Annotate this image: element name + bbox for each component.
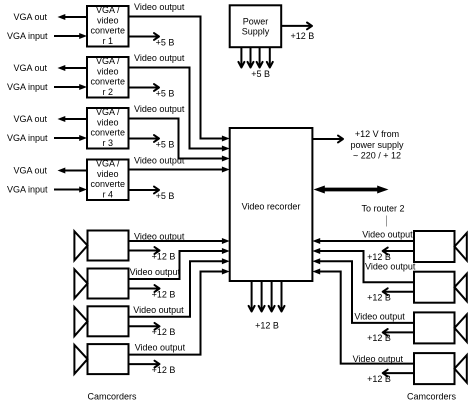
- VGA input arrow, converter 4: [7, 185, 87, 195]
- Video output wire, left camcorder 2 to recorder: [129, 248, 230, 279]
- svg-text:converte: converte: [90, 77, 125, 87]
- VGA input arrow, converter 3: [7, 133, 87, 143]
- right camcorder 4 (body + lens triangle): [414, 353, 467, 384]
- svg-text:+5 B: +5 B: [156, 89, 175, 99]
- bidirectional link arrow to router 2: [314, 186, 405, 214]
- svg-text:+5 B: +5 B: [156, 38, 175, 48]
- svg-text:VGA /: VGA /: [96, 5, 120, 15]
- +12 B power arrow, right camcorder 2: [367, 288, 414, 302]
- left camcorder 1 (body + lens triangle): [74, 231, 128, 261]
- +12 B power arrow, right camcorder 3: [367, 329, 414, 343]
- svg-text:+12 B: +12 B: [367, 252, 391, 262]
- VGA input arrow, converter 2: [7, 82, 87, 92]
- svg-text:VGA /: VGA /: [96, 159, 120, 169]
- svg-text:r 3: r 3: [102, 138, 113, 148]
- svg-text:power supply: power supply: [350, 140, 404, 150]
- svg-text:VGA /: VGA /: [96, 107, 120, 117]
- VGA input arrow, converter 1: [7, 31, 87, 41]
- Camcorders label (right): [407, 392, 457, 402]
- Video output wire, converter 2 to recorder: [129, 53, 230, 152]
- +12 B power arrow, right camcorder 1: [367, 248, 414, 262]
- svg-text:Supply: Supply: [242, 27, 270, 37]
- Video output wire, converter 3 to recorder: [129, 104, 230, 162]
- Video output wire, converter 1 to recorder: [129, 2, 230, 142]
- svg-text:+12 B: +12 B: [367, 374, 391, 384]
- svg-text:Video output: Video output: [133, 305, 184, 315]
- right camcorder 1 (body + lens triangle): [414, 231, 467, 262]
- svg-text:VGA out: VGA out: [13, 166, 47, 176]
- svg-text:Video output: Video output: [130, 267, 181, 277]
- svg-text:video: video: [97, 169, 119, 179]
- svg-text:Video output: Video output: [134, 53, 185, 63]
- leader tick under To router 2: [386, 216, 388, 227]
- +12 B power arrow, left camcorder 3: [129, 323, 176, 337]
- svg-text:VGA input: VGA input: [7, 185, 48, 195]
- svg-text:+5 B: +5 B: [156, 191, 175, 201]
- svg-text:Power: Power: [243, 16, 269, 26]
- left camcorder 2 (body + lens triangle): [74, 269, 128, 299]
- +5 B outputs of power supply (4 down arrows): [238, 47, 272, 79]
- Video output wire, right camcorder 3 to recorder: [312, 258, 414, 323]
- right camcorder 3 (body + lens triangle): [414, 312, 467, 343]
- svg-text:Video output: Video output: [354, 312, 405, 322]
- VGA out arrow, converter 2: [13, 63, 87, 73]
- Video output wire, right camcorder 4 to recorder: [312, 269, 414, 365]
- Video output wire, converter 4 to recorder: [129, 156, 230, 173]
- video recorder box: [230, 128, 313, 281]
- VGA out arrow, converter 3: [13, 114, 87, 124]
- svg-text:Video output: Video output: [365, 262, 416, 272]
- svg-text:VGA out: VGA out: [13, 114, 47, 124]
- Video output wire, right camcorder 1 to recorder: [312, 229, 414, 244]
- svg-text:+12 B: +12 B: [291, 31, 315, 41]
- svg-text:+12 B: +12 B: [152, 289, 176, 299]
- Video output wire, left camcorder 4 to recorder: [129, 269, 230, 355]
- svg-text:Video output: Video output: [134, 156, 185, 166]
- svg-text:converte: converte: [90, 128, 125, 138]
- svg-text:+12 B: +12 B: [255, 321, 279, 331]
- svg-text:converte: converte: [90, 179, 125, 189]
- svg-text:Video output: Video output: [362, 229, 413, 239]
- VGA/video converter 3 box: [87, 107, 129, 148]
- +5 B power arrow, converter 1: [129, 33, 175, 47]
- +5 B power arrow, converter 4: [129, 187, 175, 201]
- VGA out arrow, converter 4: [13, 166, 87, 176]
- +12 B arrow from power supply: [281, 23, 314, 42]
- svg-text:+12 B: +12 B: [367, 293, 391, 303]
- power supply box: [230, 5, 282, 47]
- svg-text:converte: converte: [90, 26, 125, 36]
- Video output wire, left camcorder 3 to recorder: [129, 258, 230, 317]
- svg-text:video: video: [97, 66, 119, 76]
- svg-text:Video output: Video output: [134, 232, 185, 242]
- svg-text:VGA /: VGA /: [96, 56, 120, 66]
- svg-text:Video output: Video output: [353, 354, 404, 364]
- +5 B power arrow, converter 3: [129, 135, 175, 149]
- svg-text:+5 B: +5 B: [251, 69, 270, 79]
- svg-text:+12 V from: +12 V from: [355, 129, 399, 139]
- +12 B power arrow, left camcorder 1: [129, 247, 176, 261]
- +5 B power arrow, converter 2: [129, 84, 175, 98]
- svg-text:+5 B: +5 B: [156, 140, 175, 150]
- svg-text:~ 220 / + 12: ~ 220 / + 12: [353, 151, 401, 161]
- svg-text:Camcorders: Camcorders: [87, 392, 137, 402]
- svg-text:VGA out: VGA out: [13, 63, 47, 73]
- right camcorder 2 (body + lens triangle): [414, 272, 467, 303]
- +12 B power arrow, left camcorder 2: [129, 285, 176, 299]
- +12 V output arrow from recorder to power supply note: [312, 129, 404, 161]
- VGA/video converter 4 box: [87, 159, 129, 200]
- svg-text:Video recorder: Video recorder: [242, 202, 301, 212]
- svg-text:r 2: r 2: [102, 87, 113, 97]
- Video output wire, right camcorder 2 to recorder: [312, 248, 415, 282]
- svg-text:Video output: Video output: [134, 2, 185, 12]
- svg-text:VGA out: VGA out: [13, 12, 47, 22]
- svg-text:Camcorders: Camcorders: [407, 392, 457, 402]
- svg-text:r 1: r 1: [102, 36, 113, 46]
- svg-text:To router 2: To router 2: [361, 204, 404, 214]
- svg-text:r 4: r 4: [102, 189, 113, 199]
- svg-text:+12 B: +12 B: [367, 333, 391, 343]
- Video output wire, left camcorder 1 to recorder: [129, 232, 230, 245]
- +12 B outputs of recorder (4 down arrows): [249, 281, 285, 331]
- left camcorder 3 (body + lens triangle): [74, 306, 128, 336]
- svg-text:+12 B: +12 B: [152, 251, 176, 261]
- Camcorders label (left): [87, 392, 137, 402]
- svg-text:video: video: [97, 15, 119, 25]
- VGA out arrow, converter 1: [13, 12, 87, 22]
- svg-text:video: video: [97, 117, 119, 127]
- svg-text:VGA input: VGA input: [7, 31, 48, 41]
- svg-text:VGA input: VGA input: [7, 82, 48, 92]
- +12 B power arrow, right camcorder 4: [367, 370, 414, 384]
- svg-text:VGA input: VGA input: [7, 133, 48, 143]
- VGA/video converter 2 box: [87, 56, 129, 97]
- svg-text:+12 B: +12 B: [152, 327, 176, 337]
- left camcorder 4 (body + lens triangle): [74, 344, 128, 374]
- VGA/video converter 1 box: [87, 5, 129, 46]
- svg-text:Video output: Video output: [135, 343, 186, 353]
- svg-text:Video output: Video output: [134, 104, 185, 114]
- +12 B power arrow, left camcorder 4: [129, 361, 176, 375]
- svg-text:+12 B: +12 B: [152, 365, 176, 375]
